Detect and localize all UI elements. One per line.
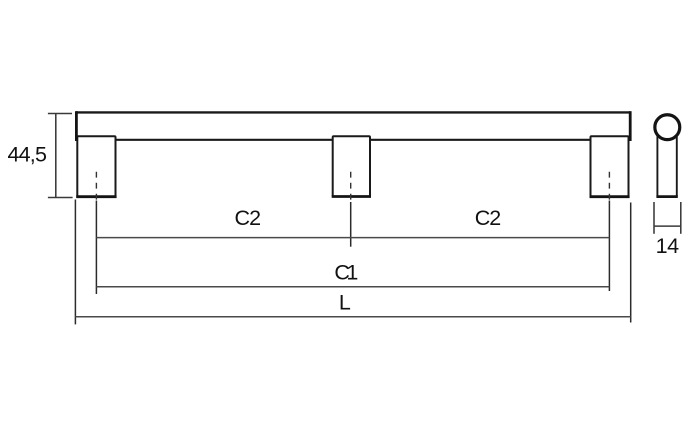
side view bar circle [655,115,680,140]
dim 44,5 vertical dimension line [55,114,57,198]
extension line middle post center (C2) [350,202,352,247]
dim 44,5 top extension line [48,113,72,115]
left post dashed centerline [95,172,97,202]
extension line bar right end (L) [630,203,632,323]
svg-text:C1: C1 [334,261,357,285]
side view post [656,132,677,197]
left post [76,136,116,197]
dim 14 right extension line [680,202,682,234]
right post [590,136,630,197]
dim C2 dimension line [96,237,609,239]
dim 14 left extension line [653,202,655,234]
handle bar bottom edge [76,139,631,141]
dim C1 dimension line [96,286,609,288]
dim L dimension line [75,316,630,318]
right post dashed centerline [608,172,610,202]
middle post dashed centerline [350,172,352,202]
bar left end cap [75,111,78,141]
middle post [332,136,371,196]
extension line bar left end (L) [74,200,76,325]
extension line left post center (C2/C1) [95,201,97,295]
svg-text:14: 14 [656,234,679,258]
svg-text:C2: C2 [475,206,501,230]
svg-text:L: L [339,291,351,315]
bar right end cap [629,111,632,141]
svg-text:44,5: 44,5 [7,143,46,167]
dim 14 dimension line [654,225,681,227]
extension line right post center (C2/C1) [608,201,610,292]
svg-text:C2: C2 [235,206,261,230]
handle bar (front view) top edge [76,111,631,113]
dim 44,5 bottom extension line [48,197,73,199]
